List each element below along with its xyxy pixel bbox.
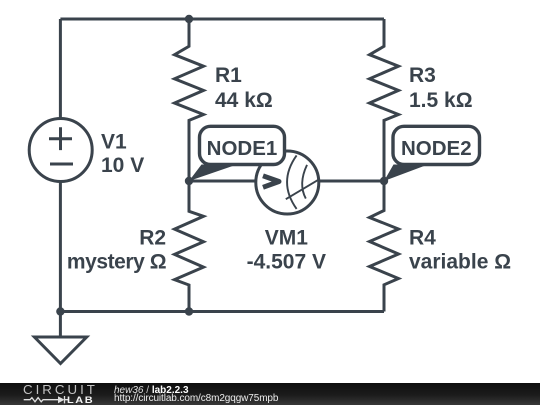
- svg-text:44 kΩ: 44 kΩ: [215, 89, 273, 112]
- svg-text:VM1: VM1: [265, 227, 309, 250]
- svg-text:R3: R3: [409, 64, 436, 87]
- svg-text:R4: R4: [409, 227, 436, 250]
- svg-text:R1: R1: [215, 64, 242, 87]
- svg-text:NODE2: NODE2: [401, 137, 472, 160]
- svg-text:-4.507 V: -4.507 V: [247, 251, 326, 274]
- svg-text:mystery Ω: mystery Ω: [67, 251, 166, 274]
- svg-text:10 V: 10 V: [101, 154, 144, 177]
- svg-text:variable Ω: variable Ω: [409, 251, 511, 274]
- svg-text:1.5 kΩ: 1.5 kΩ: [409, 89, 473, 112]
- svg-text:NODE1: NODE1: [207, 137, 278, 160]
- svg-text:V1: V1: [101, 130, 127, 153]
- svg-text:R2: R2: [139, 227, 166, 250]
